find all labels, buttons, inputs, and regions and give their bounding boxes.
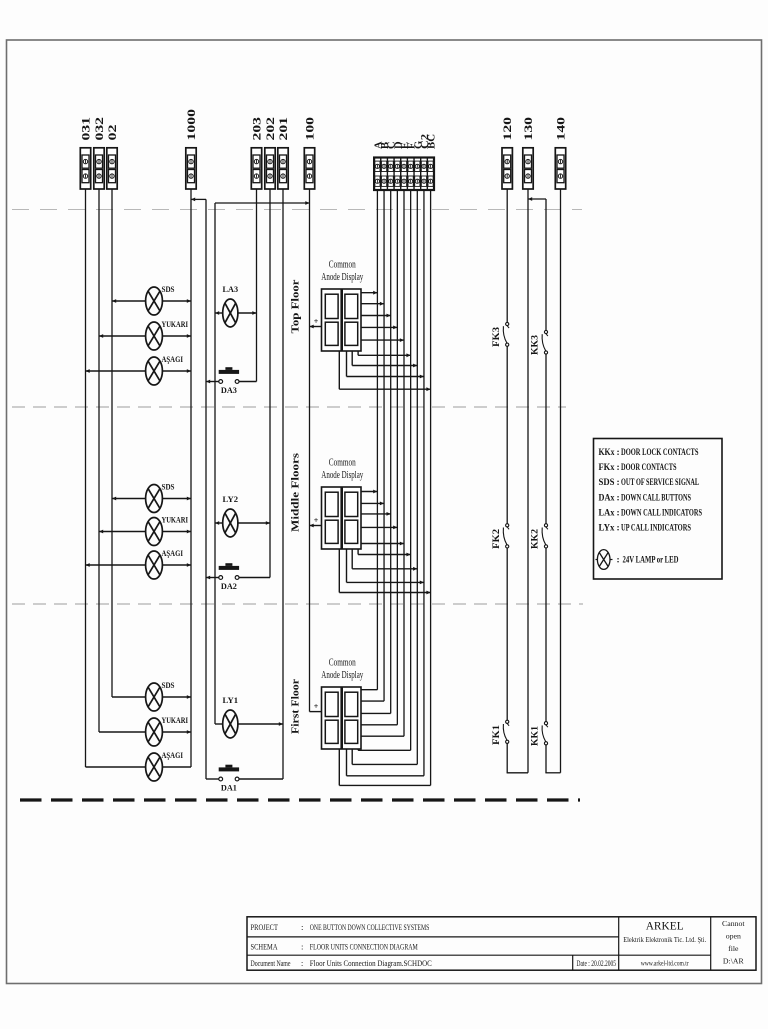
connector terminal 1000	[186, 148, 196, 189]
svg-text:1000: 1000	[186, 109, 198, 141]
wire segment bus BC	[430, 190, 432, 785]
svg-text::: :	[617, 524, 620, 534]
svg-text:Floor Units Connection Diagram: Floor Units Connection Diagram.SCHDOC	[310, 959, 432, 968]
wire display middle floors segment BC	[338, 549, 340, 593]
svg-text:Elektrik Elektronik Tic. Ltd.: Elektrik Elektronik Tic. Ltd. Şti.	[623, 935, 706, 944]
wire 140 return bus	[560, 189, 562, 773]
wire segment bus C	[390, 190, 392, 713]
svg-text:031: 031	[81, 117, 93, 141]
wire YUKARI left first floor	[99, 731, 146, 733]
wire segment bus F	[410, 190, 412, 750]
wire display plus first floor	[310, 711, 322, 713]
legend lamp symbol	[597, 550, 610, 570]
svg-text:AŞAGI: AŞAGI	[162, 354, 184, 364]
svg-text::: :	[617, 556, 620, 566]
svg-text:SDS: SDS	[162, 284, 175, 294]
floor separator dashed line (above top floor)	[12, 209, 582, 211]
common anode display top floor	[322, 289, 362, 351]
wire chain bottom link FK to 130	[507, 772, 528, 774]
svg-text:032: 032	[94, 117, 106, 141]
wire display first floor segment G	[351, 749, 353, 764]
wire display top floor segment G	[351, 351, 353, 366]
connector terminal 120	[502, 148, 512, 189]
wire 1000 bus	[190, 189, 192, 767]
wire indicator feeder jog from 100	[215, 202, 310, 204]
wire display first floor segment C	[361, 712, 391, 714]
indicator lamp LY2	[223, 509, 238, 537]
wire SDS right first floor	[162, 696, 191, 698]
wire display first floor segment A	[361, 689, 377, 691]
lamp YUKARI first floor	[146, 718, 163, 746]
wire display middle floors segment D	[361, 526, 397, 528]
svg-text:Top Floor: Top Floor	[290, 279, 302, 333]
svg-text::: :	[617, 463, 620, 473]
wire DA2 left	[206, 577, 219, 579]
wire chain bottom link KK to 140	[545, 772, 560, 774]
connector terminal 202	[265, 148, 275, 189]
wire 120 door-contact chain	[506, 189, 508, 323]
svg-text:DOWN CALL BUTTONS: DOWN CALL BUTTONS	[621, 492, 691, 502]
floor separator dashed line (middle/first)	[12, 603, 583, 605]
svg-text:LA3: LA3	[223, 284, 239, 294]
connector terminal 031	[80, 148, 90, 189]
svg-text:ARKEL: ARKEL	[646, 919, 684, 933]
svg-text:ONE BUTTON DOWN COLLECTIVE SYS: ONE BUTTON DOWN COLLECTIVE SYSTEMS	[310, 922, 430, 932]
svg-text:LYx: LYx	[599, 524, 615, 534]
svg-text:+: +	[314, 516, 319, 525]
svg-text:file: file	[728, 944, 739, 953]
wire AŞAGI right top floor	[162, 370, 191, 372]
svg-text:FKx: FKx	[599, 463, 615, 473]
wire display middle floors segment G	[351, 549, 353, 569]
wire display middle floors segment B	[361, 502, 384, 504]
wire LY1 left	[215, 723, 223, 725]
svg-text:DOOR CONTACTS: DOOR CONTACTS	[621, 462, 677, 472]
wire AŞAGI right first floor	[162, 766, 191, 768]
svg-text:FK1: FK1	[491, 724, 501, 745]
svg-text::: :	[617, 508, 620, 518]
wire segment bus B	[383, 190, 385, 701]
title block table	[247, 917, 756, 970]
svg-text:201: 201	[278, 117, 290, 141]
svg-text:UP CALL INDICATORS: UP CALL INDICATORS	[621, 523, 691, 533]
wire display middle floors segment C2	[346, 549, 348, 582]
wire display top floor segment C	[361, 315, 391, 317]
svg-text:FLOOR UNITS CONNECTION DIAGRAM: FLOOR UNITS CONNECTION DIAGRAM	[310, 942, 418, 952]
svg-text:LY1: LY1	[223, 695, 239, 705]
svg-text:Document Name: Document Name	[251, 959, 291, 968]
svg-text:SDS: SDS	[162, 482, 175, 492]
wire display plus top floor	[310, 326, 322, 328]
svg-text:LY2: LY2	[223, 494, 239, 504]
door contact KK2	[542, 524, 548, 548]
lamp YUKARI top floor	[146, 322, 163, 350]
floor separator dashed line (top/middle)	[12, 406, 566, 408]
wire display first floor segment BC	[338, 749, 340, 785]
connector terminal 100	[304, 148, 314, 189]
wire SDS left first floor	[112, 696, 146, 698]
wire AŞAGI left top floor	[86, 370, 146, 372]
wire SDS right middle floors	[162, 498, 191, 500]
9-pole display terminal block	[374, 158, 434, 191]
door contact FK3	[503, 322, 509, 346]
wire 032 bus	[98, 189, 100, 732]
wire display first floor segment E	[361, 735, 404, 737]
lamp AŞAGI top floor	[146, 357, 163, 385]
wire segment bus G	[416, 190, 418, 764]
wire display top floor segment E	[361, 339, 404, 341]
svg-text:203: 203	[252, 117, 264, 141]
svg-text:www.arkel-ltd.com.tr: www.arkel-ltd.com.tr	[641, 959, 689, 968]
svg-text:FK3: FK3	[491, 326, 501, 347]
wire DA2 right	[239, 577, 270, 579]
common anode display middle floors	[322, 487, 362, 549]
svg-text:YUKARI: YUKARI	[162, 319, 189, 329]
svg-text:YUKARI: YUKARI	[162, 715, 189, 725]
svg-text::: :	[617, 448, 620, 458]
svg-text:KK2: KK2	[530, 528, 540, 549]
svg-text:130: 130	[523, 117, 535, 141]
wire DA1 left	[206, 778, 219, 780]
svg-text:202: 202	[265, 117, 277, 141]
wire 203 signal	[256, 189, 258, 382]
wire display middle floors segment A	[361, 491, 377, 493]
wire 130 jog to door-lock chain	[528, 198, 546, 200]
svg-text:AŞAGI: AŞAGI	[162, 750, 184, 760]
indicator lamp LA3	[223, 299, 238, 327]
wire display first floor segment C2	[346, 749, 348, 776]
svg-text:OUT OF SERVICE SIGNAL: OUT OF SERVICE SIGNAL	[621, 477, 699, 487]
svg-text:02: 02	[107, 124, 119, 140]
connector terminal 201	[278, 148, 288, 189]
svg-text:AŞAGI: AŞAGI	[162, 548, 184, 558]
wire DA1 right	[239, 778, 283, 780]
svg-text:DOOR LOCK CONTACTS: DOOR LOCK CONTACTS	[621, 447, 699, 457]
wire 100 plus bus	[309, 189, 311, 712]
svg-text::: :	[301, 942, 303, 952]
svg-text:DA2: DA2	[221, 581, 237, 591]
wire YUKARI right top floor	[162, 335, 191, 337]
connector terminal 130	[523, 148, 533, 189]
indicator lamp LY1	[223, 710, 238, 738]
svg-text::: :	[617, 493, 620, 503]
wire 1000 jog to DA column	[191, 198, 206, 200]
shaft bottom thick dashed line	[20, 798, 580, 801]
wire segment bus C2	[423, 190, 425, 776]
svg-text:SCHEMA: SCHEMA	[251, 942, 278, 952]
wire display middle floors segment C	[361, 513, 391, 515]
wire segment bus D	[396, 190, 398, 725]
lamp SDS first floor	[146, 683, 163, 711]
svg-text:24V LAMP or LED: 24V LAMP or LED	[623, 556, 679, 566]
wire YUKARI right middle floors	[162, 531, 191, 533]
connector terminal 032	[94, 148, 104, 189]
svg-text:Common: Common	[329, 657, 356, 668]
wire 02 bus	[111, 189, 113, 697]
wire LA3 left	[215, 312, 223, 314]
svg-text:140: 140	[556, 117, 568, 141]
svg-text:Common: Common	[329, 457, 356, 468]
wire LA3 right	[238, 312, 257, 314]
connector terminal 140	[555, 148, 565, 189]
svg-text::: :	[301, 922, 303, 932]
svg-text:Anode Display: Anode Display	[321, 470, 363, 481]
wire SDS right top floor	[162, 300, 191, 302]
wire display top floor segment D	[361, 326, 397, 328]
svg-text:Common: Common	[329, 259, 356, 270]
svg-text:120: 120	[502, 117, 514, 141]
svg-text:Middle Floors: Middle Floors	[290, 452, 302, 532]
wire LY2 left	[215, 522, 223, 524]
svg-text:Anode Display: Anode Display	[321, 272, 363, 283]
wire display top floor segment BC	[338, 351, 340, 389]
svg-text:KKx: KKx	[599, 448, 615, 458]
svg-text:open: open	[726, 932, 741, 941]
lamp AŞAGI middle floors	[146, 551, 163, 579]
svg-text:KK3: KK3	[530, 334, 540, 355]
wire 202 signal	[269, 189, 271, 578]
svg-text:DOWN CALL INDICATORS: DOWN CALL INDICATORS	[621, 507, 702, 517]
door contact FK2	[503, 524, 509, 548]
wire display first floor segment F	[357, 749, 359, 750]
svg-text:Cannot: Cannot	[722, 919, 745, 928]
wire door-lock chain KK	[545, 199, 547, 331]
legend box	[594, 439, 723, 580]
svg-text:D:\AR: D:\AR	[723, 957, 745, 966]
svg-text:LAx: LAx	[599, 508, 615, 518]
door contact FK1	[503, 720, 509, 743]
lamp AŞAGI first floor	[146, 753, 163, 781]
svg-text::: :	[301, 959, 303, 968]
svg-text:+: +	[314, 702, 319, 711]
wire display top floor segment F	[357, 351, 359, 355]
door contact KK3	[542, 330, 548, 354]
wire display first floor segment B	[361, 700, 384, 702]
wire 031 bus	[85, 189, 87, 767]
wire AŞAGI right middle floors	[162, 564, 191, 566]
svg-text:Date : 20.02.2005: Date : 20.02.2005	[577, 959, 617, 968]
wire LY1 right	[238, 723, 283, 725]
lamp SDS middle floors	[146, 485, 163, 513]
wire LY2 right	[238, 522, 270, 524]
wire AŞAGI left middle floors	[86, 564, 146, 566]
wire DA3 right	[239, 381, 256, 383]
connector terminal 203	[251, 148, 261, 189]
wire display top floor segment B	[361, 303, 384, 305]
svg-text:DAx: DAx	[599, 493, 615, 503]
svg-text:100: 100	[305, 117, 317, 141]
door contact KK1	[542, 722, 548, 745]
svg-text::: :	[617, 478, 620, 488]
wire display top floor segment C2	[346, 351, 348, 377]
wire YUKARI left middle floors	[99, 531, 146, 533]
svg-text:First Floor: First Floor	[290, 679, 302, 734]
wire 201 signal	[282, 189, 284, 779]
svg-text:FK2: FK2	[491, 528, 501, 549]
wire display middle floors segment F	[357, 549, 359, 555]
svg-text:DA3: DA3	[221, 385, 237, 395]
svg-text:+: +	[314, 317, 319, 326]
svg-text:SDS: SDS	[599, 478, 615, 488]
wire segment bus A	[376, 190, 378, 690]
wire YUKARI left top floor	[99, 335, 146, 337]
connector terminal 02	[107, 148, 117, 189]
wire SDS left top floor	[112, 300, 146, 302]
wire segment bus E	[403, 190, 405, 736]
svg-text:PROJECT: PROJECT	[251, 922, 279, 932]
wire DA3 left	[206, 381, 219, 383]
wire display top floor segment A	[361, 292, 377, 294]
push button DA2	[219, 563, 239, 579]
svg-text:BC: BC	[427, 134, 438, 149]
lamp YUKARI middle floors	[146, 518, 163, 546]
push button DA3	[219, 367, 239, 383]
wire DA button feeder column	[205, 199, 207, 779]
svg-text:Anode Display: Anode Display	[321, 670, 363, 681]
wire AŞAGI left first floor	[86, 766, 146, 768]
svg-text:YUKARI: YUKARI	[162, 515, 189, 525]
svg-text:DA1: DA1	[221, 783, 237, 793]
wire display middle floors segment E	[361, 543, 404, 545]
wire YUKARI right first floor	[162, 731, 191, 733]
lamp SDS top floor	[146, 287, 163, 315]
wire display first floor segment D	[361, 724, 397, 726]
push button DA1	[219, 765, 239, 781]
svg-text:SDS: SDS	[162, 680, 175, 690]
wire indicator feeder column	[214, 203, 216, 724]
wire 130 return bus	[527, 189, 529, 773]
svg-text:KK1: KK1	[530, 725, 540, 746]
wire display plus middle floors	[310, 525, 322, 527]
common anode display first floor	[322, 687, 362, 749]
wire SDS left middle floors	[112, 498, 146, 500]
